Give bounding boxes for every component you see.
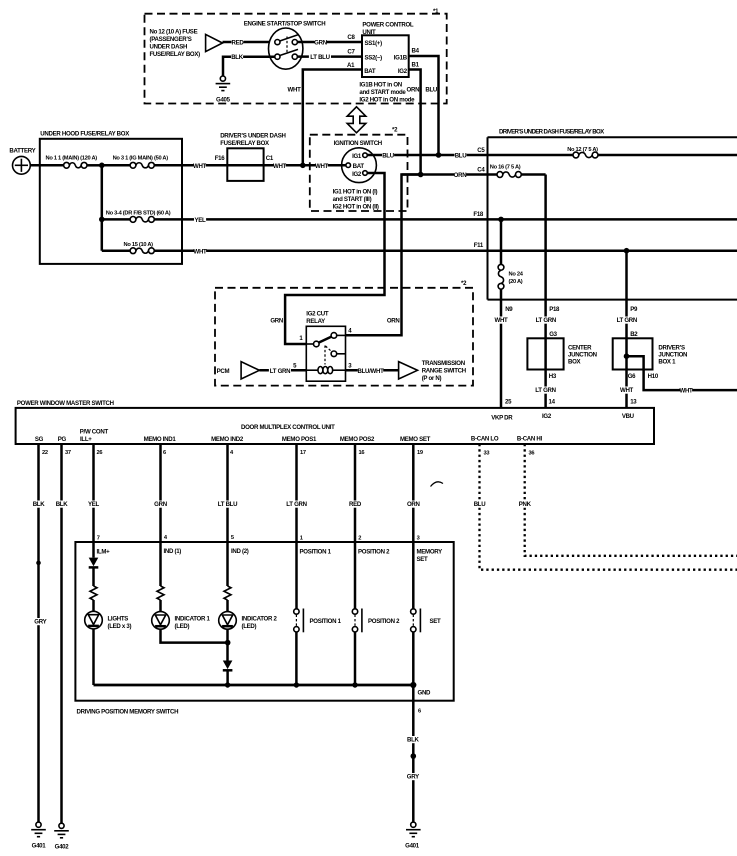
dashed box *2 IG2 cut relay [215,288,473,386]
wire MEMO IND1 GRN [159,444,162,542]
svg-text:SS2(−): SS2(−) [365,54,383,61]
svg-text:37: 37 [65,450,71,456]
IND2 branch resistor [226,542,229,586]
wire ORN C4 row [402,173,498,176]
terminal IG2 [363,171,368,176]
svg-text:BLU: BLU [474,501,487,508]
svg-text:LT GRN: LT GRN [617,317,637,324]
svg-text:WHT: WHT [680,388,694,395]
wire BLU from B4 [409,56,439,155]
junction WHT [300,163,306,169]
svg-text:INDICATOR 2: INDICATOR 2 [242,615,278,622]
ground G405 [220,76,225,81]
svg-text:No 24: No 24 [509,272,524,278]
svg-text:IND (2): IND (2) [231,548,249,555]
wire WHT / F11 row [154,249,737,252]
LIGHTS LED x3 [92,600,95,611]
svg-text:LT GRN: LT GRN [286,501,306,508]
svg-text:C1: C1 [266,155,274,162]
svg-text:IG2 HOT in ON mode: IG2 HOT in ON mode [359,97,415,104]
wire LT BLU to C7 [297,55,362,58]
ground G402 [59,823,64,828]
svg-text:G401: G401 [32,843,47,850]
power feed arrow from fuse 12 [206,34,223,51]
svg-text:and START (III): and START (III) [333,196,372,203]
driver's junction box 1 [613,338,653,369]
svg-text:BOX 1: BOX 1 [658,359,676,366]
svg-text:F18: F18 [473,211,484,218]
svg-text:PCM: PCM [217,368,230,375]
svg-text:LT GRN: LT GRN [536,317,556,324]
ILM+ resistor [92,567,95,586]
svg-text:C4: C4 [477,166,485,173]
svg-text:RED: RED [349,501,362,508]
svg-text:GRN: GRN [270,317,283,324]
wire ORN from B1 [409,70,421,175]
svg-text:G6: G6 [628,373,636,380]
svg-text:FUSE/RELAY BOX): FUSE/RELAY BOX) [150,51,201,58]
wire BLU/WHT from relay pin 3 [346,369,399,372]
svg-text:17: 17 [300,450,306,456]
dashed accessory box *1 [145,14,447,104]
svg-text:INDICATOR 1: INDICATOR 1 [175,615,211,622]
svg-text:SET: SET [417,556,429,563]
svg-text:IG1 HOT in ON (I): IG1 HOT in ON (I) [333,189,378,196]
svg-text:C5: C5 [477,147,485,154]
svg-text:5: 5 [231,535,234,541]
svg-text:P/W CONT: P/W CONT [80,428,109,435]
svg-text:WHT: WHT [194,249,208,256]
svg-text:WHT: WHT [315,163,329,170]
svg-text:BLK: BLK [33,501,46,508]
svg-text:BLU: BLU [455,153,468,160]
svg-text:POSITION 2: POSITION 2 [358,548,390,555]
wire MEMO POS2 RED [354,444,357,542]
svg-text:6: 6 [418,709,421,715]
wire B-CAN LO BLU (dotted) [480,444,737,570]
svg-text:LT GRN: LT GRN [270,368,290,375]
svg-text:BOX: BOX [568,359,582,366]
svg-text:A1: A1 [347,62,355,69]
wire SG BLK/GRY [37,444,40,822]
svg-text:LT BLU: LT BLU [218,501,238,508]
relay movable contact [306,343,313,345]
ILM+ branch: diode [92,542,95,558]
svg-text:BATTERY: BATTERY [9,148,35,155]
wire ILL+ YEL [92,444,95,542]
svg-text:BLU: BLU [425,86,438,93]
svg-text:G405: G405 [216,97,231,104]
junction inside driver's junction box [624,353,630,359]
blade link (dashed) [286,37,288,53]
svg-text:POWER WINDOW MASTER SWITCH: POWER WINDOW MASTER SWITCH [17,400,114,407]
svg-text:H3: H3 [549,373,557,380]
svg-text:JUNCTION: JUNCTION [568,352,597,359]
svg-text:WHT: WHT [495,317,509,324]
junction BLU [436,152,442,158]
svg-text:(20 A): (20 A) [509,279,523,285]
svg-text:1: 1 [300,536,303,542]
svg-text:IG2 HOT in ON (II): IG2 HOT in ON (II) [333,204,379,211]
svg-text:G401: G401 [405,843,420,850]
junction F11 / P9 [624,248,630,254]
svg-text:DRIVER’S: DRIVER’S [658,345,685,352]
svg-text:2: 2 [358,536,361,542]
svg-text:BLK: BLK [56,501,69,508]
svg-text:No 3-4 (DR F/B STD) (60 A): No 3-4 (DR F/B STD) (60 A) [106,211,171,217]
svg-text:POSITION 2: POSITION 2 [368,618,400,625]
svg-text:N9: N9 [505,306,513,313]
svg-text:MEMORY: MEMORY [417,548,443,555]
svg-text:3: 3 [417,536,420,542]
svg-text:36: 36 [529,450,535,456]
svg-text:UNDER DASH: UNDER DASH [150,44,188,51]
wire B-CAN HI PNK (dotted) [525,444,737,556]
svg-text:BAT: BAT [364,68,376,75]
svg-text:BLU/WHT: BLU/WHT [358,368,385,375]
stray arc mark [431,482,444,487]
wire ORN to relay pin 4 [346,175,421,336]
wire RED [223,41,275,44]
svg-text:ORN: ORN [454,172,467,179]
switch blade upper [279,35,298,41]
POSITION 2 switch [354,542,357,609]
junction bus top [99,163,105,169]
svg-text:B2: B2 [630,331,638,338]
svg-text:DRIVER’S UNDER DASH: DRIVER’S UNDER DASH [220,132,285,139]
svg-text:G3: G3 [549,331,557,338]
svg-text:LT BLU: LT BLU [310,54,330,61]
svg-text:*2: *2 [461,280,467,287]
svg-text:VBU: VBU [622,413,635,420]
terminal BAT [346,163,351,168]
svg-text:(LED): (LED) [175,623,190,630]
wire GRN ignition IG2 to relay pin 1 [285,173,384,344]
wire BLU C5 row [367,154,573,157]
svg-text:No 16 (7 5 A): No 16 (7 5 A) [490,164,521,170]
terminal IG1 [363,153,368,158]
wire YEL / F18 row [154,218,737,221]
center junction box [527,338,563,369]
ground G401 right [411,822,416,827]
junction IND1/IND2 [225,640,231,646]
svg-text:POSITION 1: POSITION 1 [300,548,332,555]
svg-text:WHT: WHT [193,163,207,170]
svg-text:*1: *1 [433,8,439,15]
svg-text:BLK: BLK [231,54,244,61]
svg-text:C8: C8 [347,34,355,41]
svg-text:F11: F11 [474,242,484,249]
svg-text:WHT: WHT [288,86,302,93]
svg-text:H10: H10 [648,373,659,380]
wire GRN to C8 [297,41,362,44]
INDICATOR 2 LED [226,600,229,612]
svg-text:P9: P9 [630,306,638,313]
svg-text:B-CAN HI: B-CAN HI [517,436,543,443]
junction F18 / N9 [498,217,504,223]
svg-text:GND: GND [418,690,432,697]
svg-text:IG1: IG1 [352,153,362,160]
transmission range switch arrow [399,362,418,379]
IND1 to junction [161,629,228,642]
svg-text:SS1(+): SS1(+) [365,40,383,47]
svg-text:UNDER HOOD FUSE/RELAY BOX: UNDER HOOD FUSE/RELAY BOX [40,131,130,138]
P9 column (LT GRN/WHT) [625,251,628,408]
relay fixed contact NC [331,351,337,357]
svg-text:WHT: WHT [273,163,287,170]
IND1 branch resistor [159,542,162,586]
svg-text:ORN: ORN [407,501,420,508]
svg-text:DOOR MULTIPLEX CONTROL UNIT: DOOR MULTIPLEX CONTROL UNIT [241,424,335,431]
svg-text:P18: P18 [549,306,560,313]
SET switch [412,542,415,609]
svg-text:DRIVING POSITION MEMORY SWITCH: DRIVING POSITION MEMORY SWITCH [77,709,179,716]
wire LT GRN to relay pin 5 [259,369,306,372]
ground G401 left [36,822,41,827]
svg-text:F16: F16 [215,155,226,162]
svg-text:(PASSENGER’S: (PASSENGER’S [150,36,192,43]
svg-text:DRIVER’S UNDER DASH FUSE/RELAY: DRIVER’S UNDER DASH FUSE/RELAY BOX [499,129,605,136]
svg-text:MEMO IND2: MEMO IND2 [211,436,244,443]
H10 branch wire WHT [627,356,737,390]
wire WHT to F16 [154,164,227,167]
svg-text:B4: B4 [412,48,420,55]
wire BLK to ground [223,57,275,76]
svg-text:IND (1): IND (1) [164,548,182,555]
diode below IND2 [223,661,233,670]
svg-text:POSITION 1: POSITION 1 [310,618,342,625]
svg-text:33: 33 [484,450,490,456]
svg-text:MEMO IND1: MEMO IND1 [144,436,177,443]
POSITION 1 switch [295,542,298,609]
relay coil [318,367,323,374]
svg-text:LIGHTS: LIGHTS [108,615,129,622]
svg-text:WHT: WHT [620,387,634,394]
svg-text:MEMO POS1: MEMO POS1 [282,436,317,443]
svg-text:VKP DR: VKP DR [491,415,513,422]
svg-text:GRY: GRY [34,618,46,625]
wire WHT from A1 [303,70,362,164]
dashed box *2 ignition switch [310,135,408,211]
svg-text:MEMO SET: MEMO SET [400,436,431,443]
svg-text:RELAY: RELAY [306,318,325,325]
svg-text:16: 16 [359,450,365,456]
wire SET GND output BLK/GRY [412,685,415,822]
svg-text:SG: SG [35,436,44,443]
svg-text:(LED): (LED) [242,623,257,630]
svg-text:B-CAN LO: B-CAN LO [471,436,499,443]
svg-text:ENGINE START/STOP SWITCH: ENGINE START/STOP SWITCH [244,21,326,28]
svg-text:RED: RED [232,40,245,47]
svg-text:JUNCTION: JUNCTION [658,352,687,359]
svg-text:13: 13 [630,398,637,405]
svg-text:PNK: PNK [519,501,532,508]
svg-text:POWER CONTROL: POWER CONTROL [362,22,414,29]
svg-text:ILM+: ILM+ [97,548,111,555]
svg-text:LT GRN: LT GRN [535,387,555,394]
wire WHT C1 to ignition BAT [227,164,346,167]
relay fixed contact NO [337,334,346,336]
svg-text:TRANSMISSION: TRANSMISSION [422,360,465,367]
svg-text:IG2: IG2 [352,171,362,178]
relay mech link (dashed) [324,346,326,365]
svg-text:IG1B: IG1B [394,54,408,61]
svg-text:B1: B1 [412,62,420,69]
svg-text:19: 19 [417,450,423,456]
svg-text:CENTER: CENTER [568,345,592,352]
svg-text:IG2 CUT: IG2 CUT [306,311,329,318]
svg-text:ILL+: ILL+ [80,436,92,443]
relay blade [319,336,333,343]
svg-text:BLK: BLK [407,736,420,743]
GND bus [94,684,414,687]
junction fuse 3-4 [99,217,105,223]
wire MEMO POS1 LT GRN [295,444,298,542]
fuse No 24 + N9 column [500,219,503,264]
INDICATOR 1 LED [159,600,162,612]
bidirectional arrow symbol [347,107,366,133]
svg-text:YEL: YEL [195,217,207,224]
svg-text:MEMO POS2: MEMO POS2 [340,436,375,443]
switch blade lower [279,49,298,55]
svg-text:26: 26 [97,450,103,456]
wire PG BLK [60,444,63,823]
svg-text:IG2: IG2 [542,413,552,420]
svg-text:(P or N): (P or N) [422,375,442,382]
under-hood bus [101,165,104,250]
svg-text:IG2: IG2 [398,68,408,75]
svg-text:C7: C7 [347,48,355,55]
svg-text:GRN: GRN [154,501,167,508]
svg-text:G402: G402 [55,844,70,851]
svg-text:No 15 (10 A): No 15 (10 A) [124,242,154,248]
svg-text:No 3 1 (IG MAIN) (50 A): No 3 1 (IG MAIN) (50 A) [113,155,169,161]
svg-text:ORN: ORN [387,317,400,324]
svg-text:No 12 (10 A) FUSE: No 12 (10 A) FUSE [150,29,198,36]
svg-text:25: 25 [505,398,512,405]
svg-text:GRN: GRN [314,40,327,47]
driving position memory switch box [75,542,453,701]
wire battery feed [30,164,63,167]
wire MEMO IND2 LT BLU [226,444,229,542]
junction ORN [418,172,424,178]
svg-text:and START mode: and START mode [359,89,406,96]
splice dot SG [36,561,41,566]
relay link to NC contact (dashed) [326,346,332,352]
P18 column (LT GRN) [544,175,547,408]
svg-text:IG1B HOT in ON: IG1B HOT in ON [359,82,402,89]
svg-text:IGNITION SWITCH: IGNITION SWITCH [334,140,382,147]
svg-text:FUSE/RELAY BOX: FUSE/RELAY BOX [220,140,270,147]
svg-text:YEL: YEL [88,501,100,508]
svg-text:RANGE SWITCH: RANGE SWITCH [422,367,466,374]
svg-text:BLU: BLU [382,153,395,160]
svg-text:PG: PG [58,436,67,443]
svg-text:*2: *2 [392,127,398,134]
svg-text:6: 6 [163,450,166,456]
splice dot [411,753,417,759]
svg-text:SET: SET [430,618,442,625]
svg-text:GRY: GRY [407,773,419,780]
svg-text:7: 7 [97,535,100,541]
svg-text:(LED x 3): (LED x 3) [108,623,132,630]
svg-text:BAT: BAT [353,163,365,170]
switch terminals [275,40,280,45]
svg-text:22: 22 [42,450,48,456]
svg-text:14: 14 [549,398,556,405]
wire MEMO SET ORN [412,444,415,542]
svg-text:ORN: ORN [407,86,420,93]
svg-text:No 1 1 (MAIN) (120 A): No 1 1 (MAIN) (120 A) [46,155,98,161]
